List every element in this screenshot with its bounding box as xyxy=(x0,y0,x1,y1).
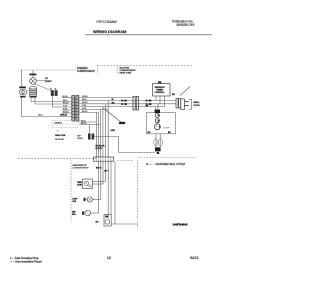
wire fan left xyxy=(86,199,88,201)
svg-text:FREEZER: FREEZER xyxy=(77,68,88,70)
arrow marks right of connector xyxy=(146,99,152,105)
svg-text:✱ — . . . GROUNDED WALL OUTLET: ✱ — . . . GROUNDED WALL OUTLET xyxy=(146,163,186,166)
ground wire corner to compressor shell xyxy=(118,137,120,153)
svg-text:GRN: GRN xyxy=(111,130,116,132)
wire lamp left pin down xyxy=(30,98,32,102)
lamp callout line xyxy=(36,80,46,82)
timer top symbol xyxy=(158,81,161,83)
diagonal wire top right xyxy=(180,87,190,96)
freezer lamp bulb xyxy=(30,78,37,85)
svg-text:9A02: 9A02 xyxy=(190,256,199,260)
freezer bottom corner tick xyxy=(95,157,97,159)
overload protector xyxy=(155,113,159,117)
refrigerator compartment dashed corner top right xyxy=(117,160,133,162)
wire lamp right pin down xyxy=(34,98,36,104)
svg-text:CABINET: CABINET xyxy=(54,121,63,124)
machine compartment dashed line xyxy=(138,157,197,159)
svg-text:BK-16: BK-16 xyxy=(63,102,68,104)
wire control to bus xyxy=(93,181,106,183)
svg-text:R BU Y: R BU Y xyxy=(96,148,103,150)
defrost timer box xyxy=(153,84,171,97)
svg-text:W-16: W-16 xyxy=(82,99,86,101)
bus wire 3 from lamp socket xyxy=(35,103,72,105)
wire term to right bus xyxy=(94,136,118,138)
defrost heater xyxy=(82,210,91,216)
wire connector down xyxy=(51,96,53,107)
svg-text:BU-16: BU-16 xyxy=(82,111,87,113)
timer bottom pins xyxy=(155,96,157,101)
cabinet ground lug xyxy=(119,122,126,124)
wire bottom right xyxy=(111,223,137,225)
freezer compartment top dashed line xyxy=(20,69,77,71)
svg-text:GROUND: GROUND xyxy=(55,139,64,141)
defrost terminator component xyxy=(88,134,94,140)
svg-text:Y-16: Y-16 xyxy=(82,105,86,107)
compressor motor xyxy=(155,124,161,130)
svg-text:PLUG: PLUG xyxy=(194,105,200,107)
svg-text:W: W xyxy=(112,99,114,101)
svg-text:13: 13 xyxy=(107,256,111,260)
svg-text:COMP: COMP xyxy=(163,128,170,130)
header rule xyxy=(85,34,212,36)
bus wire 6 xyxy=(62,112,72,114)
bus wire 7 from door switch xyxy=(22,116,73,118)
legend dashed box xyxy=(52,121,78,128)
freezer lamp holder bar xyxy=(29,74,36,76)
second connector pair xyxy=(133,97,139,111)
diagonal ground wire xyxy=(103,108,121,122)
bus wires right of plug xyxy=(79,97,133,99)
wire door switch to top line xyxy=(21,70,23,87)
svg-text:5995351749: 5995351749 xyxy=(177,23,195,27)
refrigerator compartment dashed left xyxy=(70,160,72,223)
svg-text:LIGHT: LIGHT xyxy=(45,81,52,83)
svg-text:FRT17G5AW: FRT17G5AW xyxy=(97,20,118,24)
svg-text:TERM: TERM xyxy=(77,138,83,140)
bus wire 4 from connector xyxy=(52,106,72,108)
svg-text:BK: BK xyxy=(146,105,150,107)
wire door switch down xyxy=(21,98,23,117)
wire drop to defrost terminator xyxy=(89,125,91,134)
freezer compartment corner dashed xyxy=(97,65,99,75)
connector plug pair top xyxy=(50,88,57,96)
svg-text:GRN–CAB: GRN–CAB xyxy=(55,134,66,137)
wire fan to bus xyxy=(93,199,101,201)
refrigerator compartment dashed right xyxy=(137,160,139,228)
svg-text:R-16: R-16 xyxy=(63,108,67,110)
svg-text:R-16: R-16 xyxy=(82,108,86,110)
svg-text:BU-16: BU-16 xyxy=(63,111,68,113)
thermostat box bottom xyxy=(104,215,111,227)
capacitor component xyxy=(156,119,160,123)
wire heater to bus xyxy=(91,212,99,214)
bus wire 1 xyxy=(62,97,72,99)
verticals below bar xyxy=(98,161,100,213)
defrost terminal wires xyxy=(79,121,96,123)
svg-text:REAR VIEW: REAR VIEW xyxy=(120,71,132,74)
connector bar xyxy=(94,157,114,161)
bus wire 5 xyxy=(62,109,72,111)
svg-text:140FR4000: 140FR4000 xyxy=(173,222,188,226)
cold control box xyxy=(83,179,93,189)
svg-text:COMPARTMENT: COMPARTMENT xyxy=(73,167,90,170)
diagonal wire lamp to connector xyxy=(35,84,51,91)
svg-text:WALL: WALL xyxy=(194,101,201,104)
lamp socket cylinder xyxy=(30,87,37,98)
svg-text:OR Y: OR Y xyxy=(104,171,110,173)
arrow marks left of connector xyxy=(121,99,127,105)
relay xyxy=(155,110,160,113)
dashed stub at cabinet label xyxy=(116,66,118,74)
svg-text:+ – Non-Insulated Panel: + – Non-Insulated Panel xyxy=(11,259,42,263)
wires down to compressor xyxy=(155,107,157,111)
evaporator fan motor xyxy=(84,197,93,202)
compressor enclosure box xyxy=(147,113,176,134)
post housing plug (main) xyxy=(72,96,79,121)
svg-text:GRN-16: GRN-16 xyxy=(60,115,67,117)
cabinet top dashed line xyxy=(98,65,193,67)
vertical bus drops xyxy=(95,113,97,158)
freezer compartment bottom dashed line xyxy=(18,158,96,160)
terminal ovals xyxy=(154,139,158,146)
svg-text:Y-16: Y-16 xyxy=(63,105,67,107)
svg-text:BK-16: BK-16 xyxy=(81,123,86,125)
svg-text:COMPARTMENT: COMPARTMENT xyxy=(77,70,95,73)
ground block xyxy=(155,147,161,154)
bus wire 2 from lamp xyxy=(31,101,72,103)
svg-text:W-16: W-16 xyxy=(38,115,42,117)
svg-text:CONTROL: CONTROL xyxy=(155,92,166,94)
svg-text:EVAPORATOR: EVAPORATOR xyxy=(73,164,88,167)
svg-text:BK W: BK W xyxy=(96,168,101,170)
compressor terminal wires xyxy=(155,134,157,147)
freezer door switch xyxy=(19,87,27,98)
svg-text:OR-16: OR-16 xyxy=(62,96,68,98)
svg-text:BK-16: BK-16 xyxy=(82,102,87,104)
svg-text:DEFROST: DEFROST xyxy=(155,87,166,89)
svg-text:WIRING DIAGRAM: WIRING DIAGRAM xyxy=(93,30,126,34)
line cord connector pair xyxy=(176,99,181,109)
wire lamp to top line xyxy=(32,70,34,78)
wall plug xyxy=(181,99,192,110)
svg-text:OR-16: OR-16 xyxy=(82,96,88,98)
